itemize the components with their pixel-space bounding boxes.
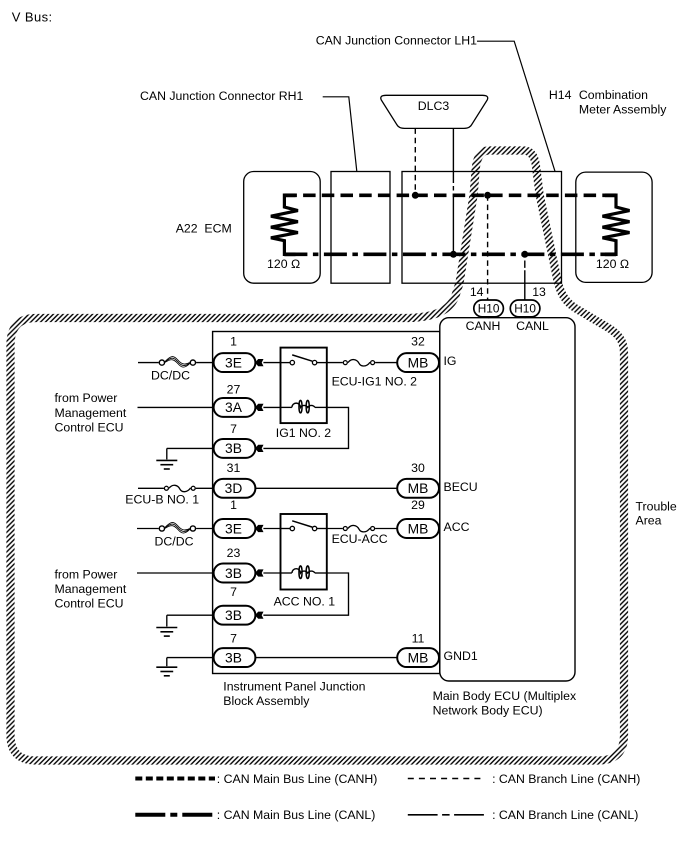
svg-text:3B: 3B: [225, 650, 242, 665]
svg-text:Management: Management: [55, 406, 127, 420]
svg-text:GND1: GND1: [444, 649, 478, 663]
svg-text:: CAN Main Bus Line (CANL): : CAN Main Bus Line (CANL): [217, 808, 376, 822]
svg-text:Area: Area: [636, 514, 662, 528]
svg-text:MB: MB: [408, 650, 429, 665]
svg-text:MB: MB: [408, 521, 429, 536]
svg-text:ECU-IG1 NO. 2: ECU-IG1 NO. 2: [332, 374, 418, 388]
svg-text:: CAN Branch Line (CANL): : CAN Branch Line (CANL): [492, 808, 638, 822]
svg-text:CANL: CANL: [516, 319, 549, 333]
svg-text:: CAN Branch Line (CANH): : CAN Branch Line (CANH): [492, 772, 640, 786]
svg-text:ACC NO. 1: ACC NO. 1: [274, 595, 336, 609]
svg-text:3D: 3D: [225, 481, 243, 496]
svg-text:13: 13: [532, 285, 546, 299]
svg-text:BECU: BECU: [444, 480, 478, 494]
svg-text:Block Assembly: Block Assembly: [223, 694, 310, 708]
svg-text:Combination: Combination: [579, 88, 648, 102]
svg-text:CAN Junction Connector LH1: CAN Junction Connector LH1: [316, 33, 477, 47]
svg-text:from Power: from Power: [55, 391, 118, 405]
svg-text:ACC: ACC: [444, 520, 470, 534]
svg-text:11: 11: [412, 631, 425, 645]
svg-text:A22 ECM: A22 ECM: [176, 222, 232, 236]
svg-text:CAN Junction Connector RH1: CAN Junction Connector RH1: [140, 89, 304, 103]
svg-text:MB: MB: [408, 355, 429, 370]
svg-text:3E: 3E: [225, 355, 242, 370]
svg-text:14: 14: [470, 285, 484, 299]
svg-text:H14: H14: [549, 88, 572, 102]
svg-text:29: 29: [411, 498, 425, 512]
svg-text:7: 7: [230, 422, 237, 436]
svg-text:DC/DC: DC/DC: [155, 535, 194, 549]
svg-text:Control ECU: Control ECU: [55, 420, 124, 434]
svg-text:Network Body ECU): Network Body ECU): [433, 704, 543, 718]
svg-text:Instrument Panel Junction: Instrument Panel Junction: [223, 680, 365, 694]
svg-text:V Bus:: V Bus:: [12, 10, 53, 25]
svg-text:32: 32: [411, 334, 425, 348]
svg-text:3B: 3B: [225, 608, 242, 623]
svg-text:IG: IG: [444, 354, 457, 368]
svg-text:120 Ω: 120 Ω: [596, 257, 629, 271]
svg-text:120 Ω: 120 Ω: [267, 257, 300, 271]
svg-text:31: 31: [227, 461, 241, 475]
svg-text:3E: 3E: [225, 521, 242, 536]
svg-text:7: 7: [230, 585, 237, 599]
svg-text:27: 27: [227, 382, 241, 396]
svg-text:MB: MB: [408, 481, 429, 496]
svg-text:: CAN Main Bus Line (CANH): : CAN Main Bus Line (CANH): [217, 772, 378, 786]
svg-text:Management: Management: [55, 582, 127, 596]
svg-text:Control ECU: Control ECU: [55, 597, 124, 611]
svg-text:DC/DC: DC/DC: [151, 369, 190, 383]
svg-text:DLC3: DLC3: [418, 99, 450, 113]
svg-text:3A: 3A: [225, 400, 243, 415]
svg-text:3B: 3B: [225, 566, 242, 581]
svg-text:ECU-ACC: ECU-ACC: [332, 532, 388, 546]
svg-text:H10: H10: [478, 301, 500, 315]
svg-text:ECU-B NO. 1: ECU-B NO. 1: [125, 492, 199, 506]
svg-text:IG1 NO. 2: IG1 NO. 2: [276, 426, 332, 440]
svg-text:7: 7: [230, 631, 237, 645]
svg-text:30: 30: [411, 461, 425, 475]
svg-text:3B: 3B: [225, 441, 242, 456]
svg-text:CANH: CANH: [466, 319, 501, 333]
svg-text:H10: H10: [514, 301, 536, 315]
svg-text:23: 23: [227, 546, 241, 560]
svg-text:1: 1: [230, 334, 237, 348]
svg-text:Meter Assembly: Meter Assembly: [579, 103, 667, 117]
svg-text:1: 1: [230, 498, 237, 512]
svg-text:from Power: from Power: [55, 568, 118, 582]
svg-text:Trouble: Trouble: [636, 499, 677, 513]
svg-text:Main Body ECU (Multiplex: Main Body ECU (Multiplex: [433, 689, 577, 703]
